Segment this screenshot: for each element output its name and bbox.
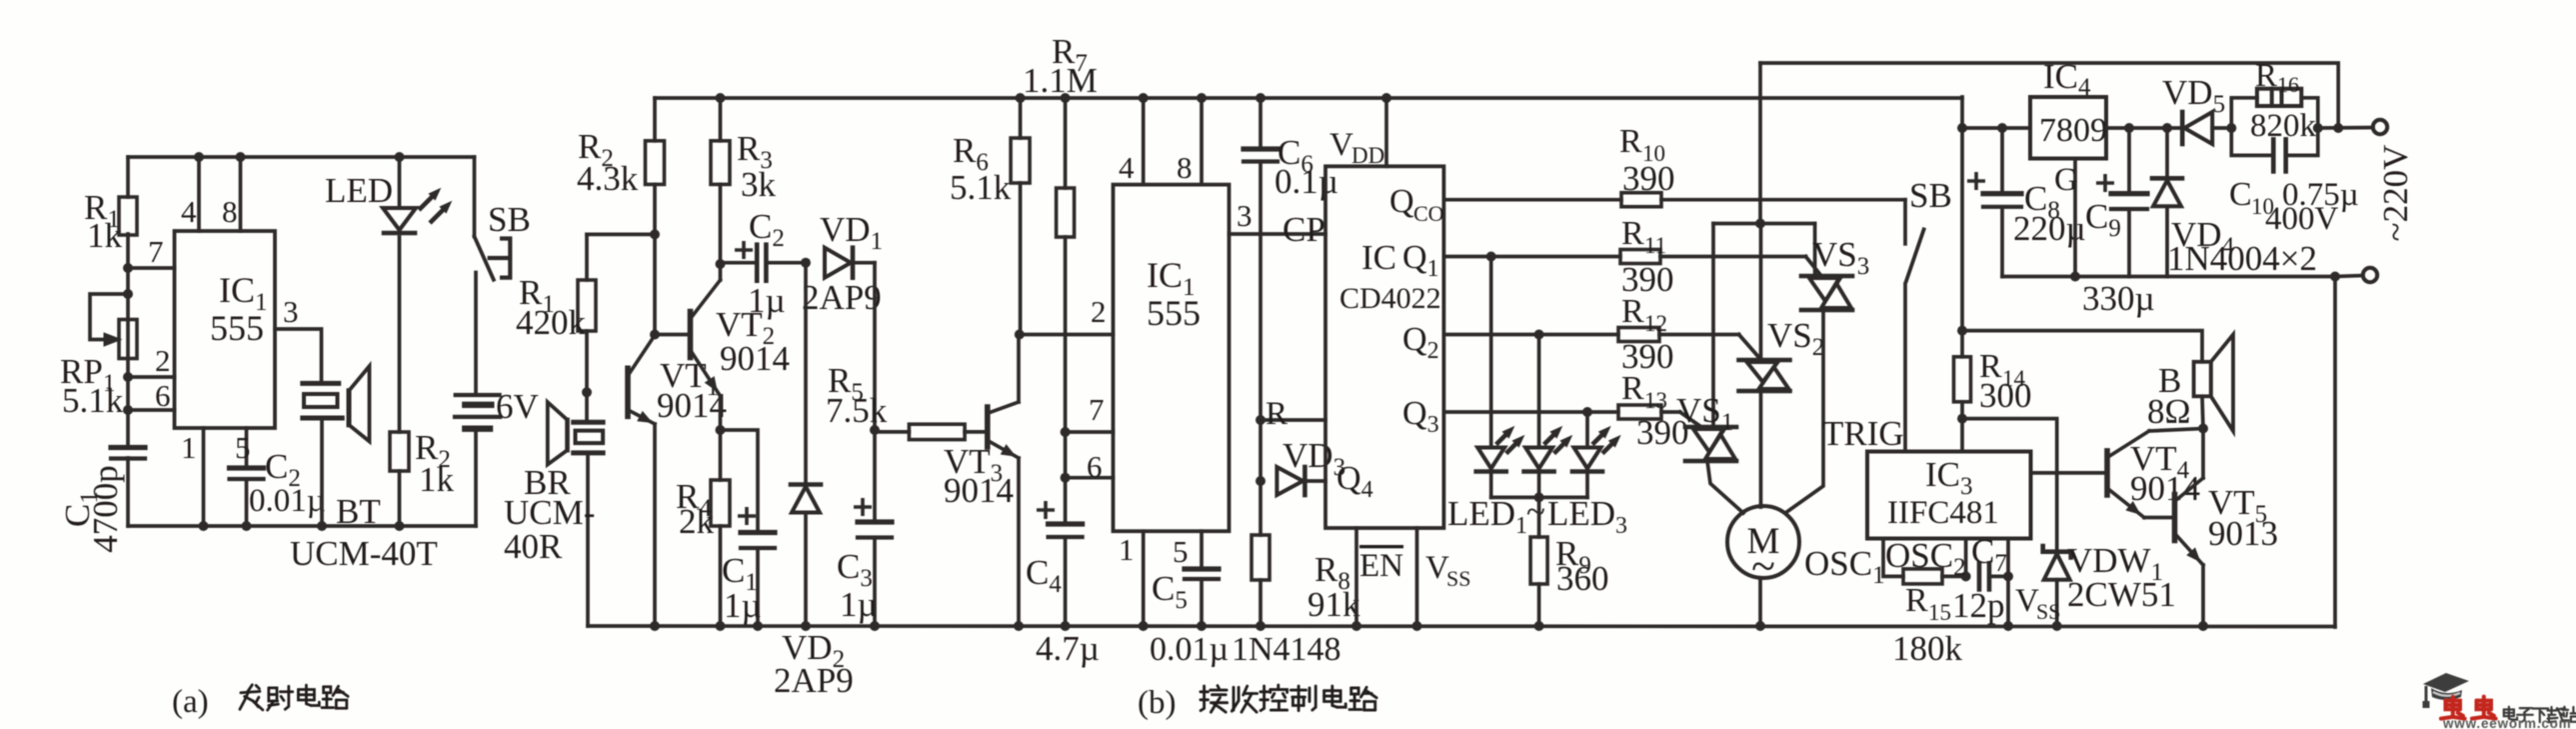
triac VS1 — [1685, 425, 1736, 430]
IC3 HFC481 box — [1867, 452, 2031, 539]
svg-text:555: 555 — [1147, 293, 1201, 333]
svg-text:1µ: 1µ — [724, 586, 762, 625]
svg-text:CP: CP — [1283, 210, 1325, 249]
svg-text:400V: 400V — [2265, 201, 2339, 237]
junction ground/right column — [2330, 272, 2340, 282]
resistor R2 (1k) transmitter — [390, 432, 409, 471]
svg-text:7: 7 — [148, 234, 164, 269]
junction pin6 node — [123, 405, 133, 415]
wire VD1 output column — [873, 263, 877, 430]
capacitor C3 (1u) — [873, 430, 877, 522]
svg-text:0.01µ: 0.01µ — [249, 483, 326, 519]
capacitor C8 (220u) — [2000, 128, 2004, 194]
switch SB (transmitter) — [473, 157, 477, 237]
junction R16 network left node — [2226, 123, 2236, 133]
wire top rail (a) — [128, 155, 475, 159]
wire pin 5 / C5 — [1200, 531, 1204, 569]
svg-text:G: G — [2054, 162, 2078, 198]
diode VD2 (2AP9) vertical — [804, 263, 808, 485]
svg-text:IC: IC — [1361, 238, 1396, 277]
wire motor to ground — [1758, 578, 1762, 626]
wire R12 gate slant — [1739, 335, 1760, 360]
junction pin7 node — [1061, 427, 1071, 437]
wire to zener — [1962, 419, 2057, 549]
junction Q1 LED node — [1486, 252, 1496, 262]
resistor R3 (3k) — [719, 98, 723, 141]
svg-text:5.1k: 5.1k — [950, 168, 1012, 207]
capacitor C2 (0.01u) transmitter — [230, 465, 264, 470]
svg-text:9014: 9014 — [720, 339, 790, 378]
triac VS3 — [1801, 274, 1852, 279]
diode VD5 — [2180, 112, 2185, 144]
svg-text:7.5k: 7.5k — [826, 391, 888, 430]
wire IC3 output to VT4 — [2031, 471, 2108, 475]
LED (transmitter) — [398, 157, 402, 208]
diode VD4 (1N4004x2) — [2165, 128, 2169, 178]
ultrasonic receiver BR UCM-40R — [585, 392, 589, 422]
wire VS2 cathode to motor — [1759, 391, 1763, 507]
transistor VT3 (9014) — [985, 407, 991, 447]
wire speaker column — [2201, 429, 2205, 479]
svg-text:~220V: ~220V — [2376, 145, 2415, 242]
capacitor C1 (1u) receiver — [721, 430, 759, 533]
junction pin6 node — [1061, 473, 1071, 483]
wire pin 8 receiver — [1200, 98, 1204, 185]
wire R13 gate slant — [1680, 412, 1701, 427]
wire top rail (b) — [655, 96, 1962, 100]
capacitor C1 (4700p) — [111, 445, 145, 450]
svg-text:8: 8 — [1177, 150, 1193, 185]
svg-text:16: 16 — [2277, 72, 2299, 97]
svg-text:3: 3 — [283, 294, 299, 329]
junction C9 node — [2124, 123, 2134, 133]
capacitor C7 (12p) — [1977, 563, 1982, 589]
svg-text:IIFC481: IIFC481 — [1887, 495, 1999, 531]
svg-text:~: ~ — [1751, 542, 1775, 591]
svg-text:1: 1 — [181, 430, 197, 465]
svg-text:1N4004×2: 1N4004×2 — [2167, 239, 2317, 278]
wire Q2 / resistor R12 (390) — [1443, 333, 1618, 337]
svg-text:R: R — [1905, 582, 1928, 619]
svg-text:CD4022: CD4022 — [1339, 282, 1441, 315]
svg-text:6V: 6V — [496, 387, 539, 426]
voltage regulator IC4 7809 — [2030, 97, 2106, 159]
wire pin 1 receiver — [1142, 531, 1146, 626]
junction C3/R5 node — [870, 425, 880, 435]
wire R stub — [1261, 418, 1325, 422]
wire EN stub — [1354, 528, 1358, 626]
svg-text:2AP9: 2AP9 — [774, 661, 854, 700]
wire to neutral terminal — [2335, 276, 2363, 277]
svg-text:TRIG: TRIG — [1822, 414, 1904, 453]
svg-text:12: 12 — [1644, 311, 1667, 336]
svg-text:R: R — [1266, 396, 1288, 432]
diode VD3 (1N4148) — [1277, 467, 1302, 495]
junction VT2 base node — [650, 330, 660, 340]
svg-text:LED1: LED1 — [1447, 494, 1527, 539]
svg-text:2: 2 — [155, 343, 171, 378]
svg-text:4700p: 4700p — [86, 465, 125, 553]
svg-text:SS: SS — [1446, 566, 1470, 591]
LED LED1 — [1489, 257, 1493, 448]
svg-text:1N4148: 1N4148 — [1232, 631, 1341, 668]
wire R14 column — [1960, 97, 1964, 357]
svg-text:SB: SB — [1909, 176, 1952, 215]
resistor R7 (1.1M) — [1064, 98, 1068, 188]
resistor R14 (300) — [1954, 357, 1971, 402]
svg-text:2k: 2k — [679, 502, 715, 541]
junction 7809 output node — [1957, 123, 1967, 133]
wire reset column R8 — [1259, 162, 1263, 536]
capacitor C2 (1u) receiver — [721, 261, 758, 265]
svg-text:9013: 9013 — [2208, 514, 2278, 553]
svg-text:4: 4 — [181, 194, 197, 229]
svg-text:15: 15 — [1928, 600, 1951, 625]
wire OSC1 stub — [1883, 539, 1903, 577]
terminal neutral — [2363, 268, 2377, 282]
svg-text:1µ: 1µ — [748, 281, 786, 320]
watermark site name — [2504, 707, 2517, 720]
op-amp IC1 555 (receiver) box — [1114, 185, 1230, 532]
wire pin 3 CP — [1230, 232, 1326, 236]
resistor R1 (420k) receiver — [587, 233, 655, 237]
wire pin 4 receiver — [1142, 98, 1146, 185]
wire to live terminal — [2318, 126, 2373, 130]
resistor R1 (1k) — [119, 197, 137, 235]
junction pin7 node — [123, 263, 133, 273]
svg-text:1.1M: 1.1M — [1023, 61, 1098, 100]
wire 7809 input — [2106, 126, 2182, 130]
svg-text:R: R — [1621, 370, 1644, 407]
wire VS1 anode column — [1711, 224, 1715, 428]
svg-text:C: C — [2229, 176, 2252, 213]
junction top line node — [2333, 123, 2343, 133]
svg-text:5: 5 — [1173, 534, 1189, 569]
wire pin 1 — [202, 428, 206, 526]
resistor R6 (5.1k) — [1019, 98, 1023, 138]
resistor R4 (2k) — [719, 430, 723, 480]
zener diode VDW1 (2CW51) — [2043, 544, 2071, 560]
resistor R15 (180k) — [1903, 569, 1942, 584]
wire VT4 emitter to VT5 base — [2144, 516, 2175, 520]
transistor VT4 (9014) — [2104, 451, 2110, 495]
wire G pin — [2073, 159, 2077, 277]
terminal live ~220V — [2373, 120, 2387, 134]
svg-text:R: R — [1621, 293, 1644, 330]
wire pin 5 / C2 column — [245, 428, 249, 468]
svg-text:DD: DD — [1351, 143, 1384, 168]
wire pin 2 receiver 555 — [1020, 333, 1114, 337]
junction wiper node — [123, 289, 133, 299]
svg-text:9014: 9014 — [944, 471, 1014, 510]
svg-text:6: 6 — [155, 378, 171, 413]
svg-text:420k: 420k — [516, 303, 587, 342]
svg-text:8Ω: 8Ω — [2147, 392, 2191, 431]
svg-text:4: 4 — [1119, 150, 1135, 185]
wire Q1 / resistor R11 (390) — [1443, 255, 1620, 259]
capacitor C10 (0.75u 400V) — [2231, 128, 2273, 155]
transistor VT1 (9014) — [625, 368, 631, 416]
svg-text:1k: 1k — [419, 460, 455, 499]
diode VD1 (2AP9) — [825, 248, 851, 278]
svg-text:LED3: LED3 — [1547, 494, 1627, 539]
junction VD3 node — [1256, 476, 1266, 486]
potentiometer RP1 (5.1k) — [119, 320, 137, 359]
capacitor C4 (4.7u) — [1049, 521, 1083, 526]
wire Q3 / resistor R13 (390) — [1443, 410, 1618, 414]
svg-text:12p: 12p — [1952, 586, 2005, 625]
wire pin 7 — [128, 266, 175, 270]
junction Q2 LED node — [1534, 330, 1544, 340]
svg-text:300: 300 — [1979, 376, 2032, 415]
speaker B (8 ohm) — [2194, 362, 2211, 397]
battery BT 6V — [474, 273, 478, 396]
svg-text:13: 13 — [1644, 388, 1667, 413]
svg-text:SB: SB — [488, 200, 531, 239]
junction R node — [1256, 415, 1266, 425]
svg-text:2: 2 — [1091, 294, 1107, 329]
svg-text:5: 5 — [235, 430, 251, 465]
wire right vertical to bottom rail — [2333, 277, 2337, 628]
svg-text:7: 7 — [1089, 392, 1105, 427]
switch SB (receiver) — [1903, 200, 1907, 244]
resistor R2 (4.3k) receiver — [653, 98, 657, 141]
junction R1 top node — [650, 229, 660, 239]
wire top line (mains) — [1760, 63, 2338, 128]
junction speaker supply node — [1957, 326, 1967, 336]
wire speaker supply — [1962, 331, 2202, 362]
svg-text:R: R — [2255, 58, 2277, 94]
wire R11 gate slant — [1806, 257, 1822, 277]
watermark chongchong red text — [2441, 697, 2465, 719]
motor M — [1727, 506, 1799, 578]
wire VS3 anode column — [1813, 224, 1817, 277]
wire OSC2 stub — [1964, 539, 1968, 577]
svg-text:~: ~ — [1526, 492, 1545, 531]
crystal transducer BT — [303, 381, 339, 386]
junction VD2 node — [801, 258, 811, 268]
wire VS1 cathode to motor — [1707, 461, 1743, 513]
wire triac bus — [1713, 222, 1815, 226]
wire pin 2 — [128, 375, 175, 379]
junction triac bus node — [1755, 219, 1765, 229]
svg-text:330µ: 330µ — [2082, 279, 2155, 318]
junction VT2 emitter node — [716, 425, 726, 435]
watermark graduation cap logo — [2423, 673, 2470, 708]
capacitor C5 (0.01u) — [1185, 566, 1219, 571]
wire pin 6 — [128, 408, 175, 412]
svg-text:(b): (b) — [1138, 685, 1176, 721]
svg-text:CO: CO — [1413, 201, 1444, 226]
junction VT1 base node — [582, 387, 592, 397]
transistor VT5 (9013) — [2172, 495, 2178, 541]
svg-text:555: 555 — [210, 308, 264, 348]
svg-text:2CW51: 2CW51 — [2067, 575, 2176, 614]
svg-text:40R: 40R — [504, 527, 563, 566]
wire Qco / resistor R10 (390) — [1443, 198, 1621, 202]
wire LED bus — [1491, 496, 1587, 500]
junction dots bottom rail (b) — [650, 621, 660, 631]
wire Vss stub — [1415, 528, 1419, 626]
svg-text:820k: 820k — [2250, 108, 2317, 144]
wire mains phase column — [1758, 63, 1762, 224]
wire pin 7 stub — [1066, 430, 1114, 434]
junction C8 node — [1997, 123, 2007, 133]
svg-text:390: 390 — [1622, 159, 1675, 198]
svg-text:6: 6 — [1087, 449, 1103, 484]
wire VDD — [1384, 98, 1388, 166]
resistor R16 (820k) boxed — [2231, 98, 2257, 128]
svg-text:EN: EN — [1359, 548, 1403, 584]
svg-text:SS: SS — [2036, 599, 2060, 624]
junction pin2 node (R6/VT3) — [1015, 330, 1025, 340]
svg-text:LED: LED — [325, 171, 393, 210]
junction pin2 node — [123, 372, 133, 382]
wire pin 6 stub — [1066, 476, 1114, 480]
LED LED3 — [1585, 412, 1589, 448]
svg-text:UCM-40T: UCM-40T — [290, 534, 438, 573]
svg-text:www.eeworm.com: www.eeworm.com — [2442, 716, 2571, 729]
resistor R5 (7.5k) — [875, 430, 909, 434]
wire VS2 anode — [1759, 224, 1763, 361]
svg-text:1: 1 — [1119, 532, 1135, 567]
svg-text:4.3k: 4.3k — [577, 159, 639, 198]
transistor VT2 (9014) — [688, 312, 694, 358]
svg-text:V: V — [1329, 127, 1353, 163]
svg-text:3k: 3k — [741, 165, 777, 204]
junction VD4 node — [2162, 123, 2172, 133]
resistor R8 (91k) — [1252, 535, 1270, 580]
svg-text:360: 360 — [1556, 559, 1609, 598]
triac VS2 — [1739, 358, 1790, 363]
svg-text:91k: 91k — [1307, 585, 1360, 624]
wire VT2 base — [655, 333, 691, 337]
wire VS3 cathode to motor — [1785, 310, 1823, 513]
svg-text:3: 3 — [1237, 198, 1253, 233]
junction VDW node — [1957, 414, 1967, 424]
junction Q3 LED node — [1582, 407, 1592, 417]
svg-text:5.1k: 5.1k — [62, 381, 124, 420]
svg-text:180k: 180k — [1892, 629, 1963, 668]
wire bottom rail (a) — [128, 524, 476, 528]
svg-text:4.7µ: 4.7µ — [1036, 629, 1100, 668]
wire left column (a) — [126, 157, 130, 197]
resistor R9 (360) — [1537, 497, 1541, 537]
wire PSU ground — [2002, 275, 2335, 279]
capacitor C9 (330u) — [2127, 128, 2131, 194]
op-amp IC1 555 (transmitter) box — [175, 231, 276, 428]
junction R16 network right node — [2313, 123, 2323, 133]
svg-text:R: R — [1619, 123, 1642, 160]
svg-text:Q: Q — [1389, 183, 1414, 220]
svg-text:1µ: 1µ — [840, 585, 878, 624]
svg-text:(a): (a) — [172, 684, 209, 720]
junction speaker/VT4 node — [2198, 424, 2208, 434]
IC CD4022 box — [1325, 166, 1443, 528]
svg-text:8: 8 — [222, 194, 238, 229]
svg-text:2AP9: 2AP9 — [802, 278, 882, 317]
svg-text:7809: 7809 — [2039, 112, 2107, 149]
wire pin 8 — [239, 157, 243, 231]
svg-text:R: R — [1621, 215, 1644, 252]
wire Vss stub IC3 — [2006, 539, 2010, 627]
junction VT2 collector node — [716, 259, 726, 269]
svg-text:11: 11 — [1644, 233, 1666, 258]
wire 7809 output rail — [1962, 126, 2030, 130]
junction dots bottom rail (a) — [199, 521, 209, 531]
wire pin 3 to BT — [275, 329, 322, 383]
wire bottom rail (b) — [588, 624, 2335, 628]
wire pin 4 — [197, 157, 201, 231]
LED LED2 — [1537, 335, 1541, 448]
svg-text:1k: 1k — [87, 216, 123, 255]
capacitor C6 (0.1u) — [1259, 98, 1263, 149]
svg-text:0.01µ: 0.01µ — [1150, 631, 1229, 668]
